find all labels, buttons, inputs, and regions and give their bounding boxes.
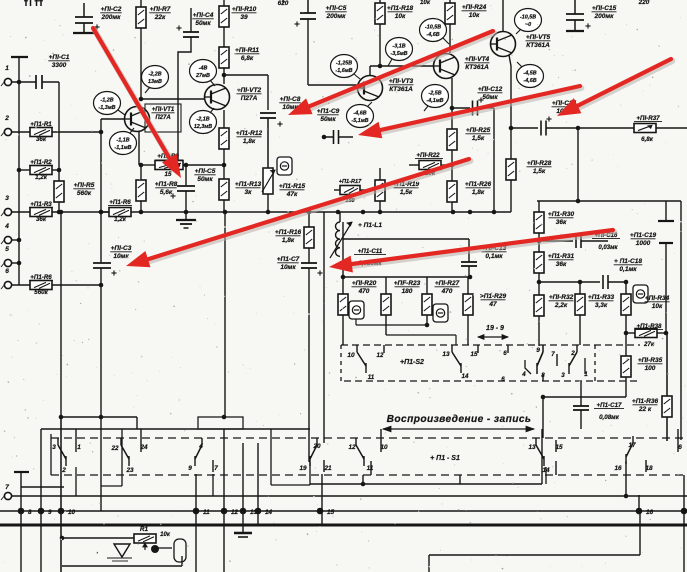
wire VT5 emitter down to C14 row xyxy=(509,55,511,128)
svg-text:50мк: 50мк xyxy=(320,116,336,123)
resistor R12 (П1-R12 1,8к) xyxy=(219,128,229,149)
svg-text:24: 24 xyxy=(139,444,148,451)
svg-text:12,3мВ: 12,3мВ xyxy=(194,124,212,130)
resistor R17 (П1-R17 150) horizontal xyxy=(340,186,360,195)
svg-text:1,8к: 1,8к xyxy=(243,138,256,145)
svg-text:9: 9 xyxy=(536,347,540,354)
capacitor C6 (П1-C6 200мк) electrolytic xyxy=(307,0,309,13)
svg-text:15: 15 xyxy=(165,171,172,178)
connector 6 xyxy=(4,281,11,288)
resistor R36 (П1-R36 22к) xyxy=(666,333,668,396)
svg-text:36к: 36к xyxy=(556,219,567,226)
svg-text:-1,25В: -1,25В xyxy=(336,61,352,67)
long vertical x61 xyxy=(60,212,62,417)
svg-text:36к: 36к xyxy=(36,136,47,143)
voltage callout -2,1В xyxy=(190,111,217,134)
dashed S1 row top xyxy=(51,437,687,439)
svg-text:+ПI-R27: +ПI-R27 xyxy=(435,280,460,287)
svg-text:+ПI-C5: +ПI-C5 xyxy=(195,168,216,175)
oscillator box outline xyxy=(62,537,134,539)
potentiometer R1 (R1 10к) xyxy=(134,534,156,543)
wire R10-R11 xyxy=(223,27,225,47)
vertical x101 bottom xyxy=(100,417,102,511)
svg-text:+П1-R6: +П1-R6 xyxy=(109,199,131,206)
svg-text:6: 6 xyxy=(501,376,505,383)
red arrow 4 xyxy=(382,88,582,132)
svg-text:13: 13 xyxy=(442,351,450,358)
resistor R28 (П1-R28 1,5к) xyxy=(510,128,512,159)
S2 contact 2-3 xyxy=(576,345,578,352)
svg-text:-2,1В: -2,1В xyxy=(196,117,209,123)
svg-text:+ПI-R25: +ПI-R25 xyxy=(466,127,491,134)
long vertical x324 xyxy=(323,212,325,443)
S1 contact 1 xyxy=(75,429,77,452)
verticals below S1 to buses xyxy=(195,474,197,572)
svg-text:+ П1-L1: + П1-L1 xyxy=(358,222,382,229)
svg-text:+П1-R18: +П1-R18 xyxy=(387,5,414,12)
svg-text:+П1-C7: +П1-C7 xyxy=(277,256,300,263)
resistor R31 (П1-R31 36к) xyxy=(534,252,544,273)
connector 2 xyxy=(4,128,11,135)
S1 contact 24 xyxy=(140,429,142,452)
S2 contact 6 upper xyxy=(507,345,509,353)
resistor R34 (П1-R34 10к) xyxy=(625,282,627,294)
ground branch left xyxy=(14,471,29,473)
ground below C5 xyxy=(176,219,196,221)
S1 contact 10 xyxy=(380,429,382,452)
wire R25-R26 xyxy=(451,150,453,181)
wire R30-R31 node xyxy=(538,233,540,252)
svg-text:+П1-R2: +П1-R2 xyxy=(30,159,52,166)
svg-text:6: 6 xyxy=(5,268,9,275)
svg-text:200мк: 200мк xyxy=(101,14,122,21)
capacitor C9 coupling xyxy=(333,130,335,144)
svg-text:180: 180 xyxy=(402,288,413,295)
svg-text:19 - 9: 19 - 9 xyxy=(486,325,504,332)
transistor VT2 (П1-VT2 П27А) xyxy=(205,85,230,110)
svg-text:+ПI-C12: +ПI-C12 xyxy=(478,86,503,93)
wire R11 to VT2 collector node xyxy=(223,68,225,84)
record head symbol near R15 xyxy=(277,157,292,175)
ground mid bottom xyxy=(234,532,252,534)
svg-text:+ПI-C3: +ПI-C3 xyxy=(111,245,132,252)
capacitor C12 (П1-C12 50мк) xyxy=(452,107,470,109)
red arrow 2 xyxy=(311,33,495,108)
S2 contact 9-8 xyxy=(542,345,544,352)
red arrow 6 xyxy=(353,232,614,266)
svg-text:10: 10 xyxy=(68,509,76,516)
svg-text:1,5к: 1,5к xyxy=(400,189,413,196)
svg-text:20: 20 xyxy=(312,443,321,450)
connector 3 xyxy=(4,208,11,215)
S2 contact 1 xyxy=(584,358,586,374)
S1 contact 18 xyxy=(645,460,647,472)
svg-text:+ПI-R11: +ПI-R11 xyxy=(235,47,259,54)
resistor R18 (П1-R18 10к) xyxy=(379,0,381,3)
capacitor C17 (П1-C17 0,08мк) xyxy=(580,381,582,406)
svg-text:-1,3мВ: -1,3мВ xyxy=(98,105,115,111)
resistor R35 (П1-R35 100) xyxy=(625,333,627,356)
svg-text:КТ361А: КТ361А xyxy=(389,86,413,93)
svg-text:16: 16 xyxy=(614,465,622,472)
jog wire y335 xyxy=(386,334,456,336)
svg-text:15: 15 xyxy=(327,509,335,516)
svg-text:+П1-R36: +П1-R36 xyxy=(632,398,659,405)
svg-text:2: 2 xyxy=(4,115,9,122)
resistor R8 (П1-R8 5,6к) xyxy=(140,165,142,180)
svg-text:+ПI-C8: +ПI-C8 xyxy=(280,96,301,103)
svg-text:100: 100 xyxy=(645,365,656,372)
head symbol B xyxy=(433,304,448,322)
resistor R22 (П1-R22 10к) horizontal xyxy=(419,161,441,170)
svg-text:+ПI-VT1: +ПI-VT1 xyxy=(152,107,175,113)
svg-text:П27А: П27А xyxy=(155,115,170,121)
resistor R30 (П1-R30 36к) xyxy=(538,201,540,212)
S1 contact 3-2 xyxy=(57,438,59,445)
svg-text:-4,6В: -4,6В xyxy=(426,32,439,38)
svg-text:-4,5В: -4,5В xyxy=(523,71,536,77)
svg-text:560к: 560к xyxy=(34,289,48,296)
svg-text:13: 13 xyxy=(528,444,536,451)
voltage callout -4,6В xyxy=(347,105,374,128)
svg-text:-1,1В: -1,1В xyxy=(116,138,129,144)
svg-text:+ПI-R37: +ПI-R37 xyxy=(636,115,660,122)
capacitor C16 (П1-C16 0,03мк) xyxy=(539,240,573,242)
wire VT1 collector to node xyxy=(141,98,205,100)
resistor R16 (П1-R16 1,8к) xyxy=(308,212,310,227)
resistor row wire y277 xyxy=(343,276,470,278)
svg-text:+ПI-R22: +ПI-R22 xyxy=(416,152,440,159)
svg-text:-3,1В: -3,1В xyxy=(392,44,405,50)
svg-text:+ПI-R34: +ПI-R34 xyxy=(645,295,670,302)
svg-text:+П1-R38: +П1-R38 xyxy=(637,323,662,330)
S1 contact 6 right xyxy=(677,429,679,452)
resistor R38 (П1-R38 27к) horizontal xyxy=(626,332,635,334)
transistor VT1 (П1-VT1 П27А) xyxy=(125,107,150,132)
svg-text:19: 19 xyxy=(299,465,307,472)
resistor R25 (П1-R25 1,5к) xyxy=(451,108,453,129)
svg-text:200мк: 200мк xyxy=(326,13,347,20)
svg-text:1000: 1000 xyxy=(636,240,651,247)
wire R13 to bus xyxy=(223,200,225,212)
svg-text:22: 22 xyxy=(110,445,119,452)
svg-text:+ПI-R5: +ПI-R5 xyxy=(74,182,95,189)
red arrow 5 xyxy=(150,161,471,261)
svg-text:2: 2 xyxy=(570,350,575,357)
svg-text:3: 3 xyxy=(5,195,9,202)
svg-text:0,03мк: 0,03мк xyxy=(598,245,618,251)
scan noise speckles xyxy=(223,87,224,88)
resistor R29 (П1-R29 47) xyxy=(467,277,469,294)
svg-text:+ПI-VT3: +ПI-VT3 xyxy=(389,78,414,85)
svg-text:220: 220 xyxy=(638,0,650,6)
svg-text:+ П1-C18: + П1-C18 xyxy=(614,258,642,265)
bus wire y511 xyxy=(0,510,687,512)
level indicator triangle xyxy=(114,544,130,557)
svg-text:1,8к: 1,8к xyxy=(282,237,295,244)
svg-text:+ П1 - S1: + П1 - S1 xyxy=(430,455,460,462)
svg-text:Воспроизведение - запись: Воспроизведение - запись xyxy=(387,414,532,425)
svg-text:0,1мк: 0,1мк xyxy=(485,253,503,260)
svg-text:5: 5 xyxy=(5,246,9,253)
voltage callout -4,5В xyxy=(517,65,544,88)
svg-text:12: 12 xyxy=(348,444,356,451)
vertical rail x59 xyxy=(58,82,60,181)
S2 contact 12 xyxy=(383,345,385,353)
resistor R13 (П1-R13 3к) xyxy=(219,179,229,200)
svg-text:27мВ: 27мВ xyxy=(195,73,210,79)
svg-text:11: 11 xyxy=(368,374,375,381)
svg-text:5,6к: 5,6к xyxy=(160,189,173,196)
svg-text:10к: 10к xyxy=(420,0,431,6)
svg-text:+ПI-R24: +ПI-R24 xyxy=(462,4,487,11)
svg-text:47к: 47к xyxy=(286,191,298,198)
svg-text:36к: 36к xyxy=(556,261,567,268)
svg-text:10к: 10к xyxy=(469,12,480,19)
svg-text:10мк: 10мк xyxy=(113,253,129,260)
small junction box y417-429 xyxy=(198,417,243,429)
solid wire y484 xyxy=(310,483,542,485)
connector 4 xyxy=(4,236,11,243)
svg-text:0,1мк: 0,1мк xyxy=(619,266,637,273)
right bottom verticals xyxy=(638,495,640,511)
wire VT1 emitter down xyxy=(138,131,140,165)
svg-text:470: 470 xyxy=(441,288,453,295)
svg-text:-10,5В: -10,5В xyxy=(520,15,536,21)
svg-text:13мВ: 13мВ xyxy=(148,79,162,85)
voltage callout -2,5В xyxy=(422,85,449,108)
ground bar top-left input xyxy=(11,56,28,58)
svg-text:12: 12 xyxy=(231,509,239,516)
wire row y128 VT5 to right edge xyxy=(511,127,538,129)
svg-text:+ПI-R20: +ПI-R20 xyxy=(352,280,377,287)
main mid bus y212 xyxy=(52,211,511,213)
resistor R1 (П1-R1 36к) horizontal xyxy=(12,131,30,133)
svg-text:+ПI-VT4: +ПI-VT4 xyxy=(465,56,490,63)
svg-text:1,2к: 1,2к xyxy=(114,216,127,223)
wire node to C8 xyxy=(224,74,268,76)
svg-text:+П1-R13: +П1-R13 xyxy=(235,181,262,188)
resistor R32 (П1-R32 2,2к) xyxy=(534,295,544,316)
underline with arrows xyxy=(383,428,534,430)
svg-text:17: 17 xyxy=(628,442,636,449)
svg-text:18: 18 xyxy=(645,465,653,472)
wire VT2 emitter down xyxy=(223,110,225,128)
connector 7 xyxy=(4,492,11,499)
wire from contact 11 down xyxy=(370,461,372,475)
svg-text:>П1-R29: >П1-R29 xyxy=(480,293,507,300)
svg-text:КТ361А: КТ361А xyxy=(526,42,550,49)
svg-text:22к: 22к xyxy=(154,14,166,21)
voltage callout -4В xyxy=(190,60,217,83)
capacitor C14 (П1-C14 10мк) xyxy=(540,121,542,136)
svg-text:4: 4 xyxy=(521,371,526,378)
svg-text:+П1-R30: +П1-R30 xyxy=(548,211,575,218)
vertical rail x101 with C3 xyxy=(100,119,102,263)
svg-text:14: 14 xyxy=(462,373,469,380)
wire VT3 to VT4 base xyxy=(370,65,433,67)
svg-text:-4В: -4В xyxy=(199,66,208,72)
S1 contact 17-16 xyxy=(632,436,634,443)
wire VT1 base left xyxy=(101,118,125,120)
wire y397 xyxy=(543,396,626,398)
voltage callout -2,2В xyxy=(142,66,169,89)
vertical from C14 node down xyxy=(577,128,579,201)
svg-text:470: 470 xyxy=(358,288,370,295)
dot node in box xyxy=(151,545,159,553)
svg-text:9: 9 xyxy=(188,465,192,472)
trimmer resistor R37 (П1-R37 6,8к) horizontal xyxy=(634,124,656,133)
voltage callout -1,2В xyxy=(94,92,121,115)
svg-text:10к: 10к xyxy=(395,13,406,20)
svg-text:-1,1мВ: -1,1мВ xyxy=(114,145,131,151)
svg-text:12: 12 xyxy=(377,352,384,359)
svg-text:8: 8 xyxy=(28,509,32,516)
resistor R9 (П1-R9 15) horizontal xyxy=(139,164,155,166)
svg-text:-10,5В: -10,5В xyxy=(425,25,441,31)
svg-text:6,8к: 6,8к xyxy=(641,136,654,143)
svg-text:11: 11 xyxy=(367,465,374,472)
svg-text:0,08мк: 0,08мк xyxy=(599,414,620,421)
S1 contact 15 xyxy=(555,440,557,452)
svg-text:+П1-C9: +П1-C9 xyxy=(317,108,340,115)
calibration tick marks top-left xyxy=(25,0,27,6)
resistor R33 (П1-R33 3,3к) xyxy=(579,282,581,294)
svg-text:4: 4 xyxy=(198,443,203,450)
dashed S2 box xyxy=(341,344,640,346)
svg-text:10: 10 xyxy=(347,352,355,359)
resistor R6 (П1-R6 560к) horizontal xyxy=(12,284,30,286)
numbered bus dots xyxy=(18,508,25,515)
transistor VT3 (П1-VT3 КТ361А) xyxy=(358,76,383,101)
svg-text:П27А: П27А xyxy=(241,95,258,102)
capacitor C15 (П1-C15 200мк) electrolytic xyxy=(574,0,576,14)
S1 contact 12-11 xyxy=(355,438,357,445)
vertical x76 xyxy=(75,467,77,496)
svg-text:6: 6 xyxy=(503,350,507,357)
svg-text:50мк: 50мк xyxy=(482,94,498,101)
svg-text:47: 47 xyxy=(488,301,497,308)
capacitor C18 (П1-C18 0,1мк) row xyxy=(539,281,600,283)
trimmer resistor R15 (П1-R15 47к) xyxy=(263,168,273,194)
svg-text:+П1-S2: +П1-S2 xyxy=(400,359,424,366)
svg-text:15: 15 xyxy=(471,351,478,358)
svg-text:7: 7 xyxy=(5,484,9,491)
resistor R20 (П1-R20 470) xyxy=(342,277,344,294)
svg-text:50мк: 50мк xyxy=(197,176,213,183)
wire L1 bottom to resistor row xyxy=(342,256,344,277)
S1 contact 22-23 xyxy=(120,438,122,445)
capacitor C19 (П1-C19 1000) xyxy=(665,201,667,221)
svg-text:+П1-R33: +П1-R33 xyxy=(588,294,615,301)
svg-text:15: 15 xyxy=(555,444,563,451)
right edge long vertical xyxy=(680,201,682,440)
svg-text:21: 21 xyxy=(323,465,332,472)
S1 contact 4-9-7 xyxy=(201,438,203,445)
capacitor C5 (П1-C5 50мк) electrolytic xyxy=(185,165,187,186)
svg-text:+ПI-R10: +ПI-R10 xyxy=(232,6,257,13)
box top wire y239 xyxy=(343,238,469,240)
svg-text:50мк: 50мк xyxy=(195,20,211,27)
motor cylinder xyxy=(174,539,186,562)
svg-text:-2,2В: -2,2В xyxy=(148,72,161,78)
connector 1 xyxy=(4,78,11,85)
resistor R3 (П1-R3 36к) horizontal xyxy=(12,211,30,213)
svg-text:36к: 36к xyxy=(36,216,47,223)
transistor VT4 (П1-VT4 КТ361А) xyxy=(434,54,459,79)
svg-text:6: 6 xyxy=(678,444,682,451)
svg-text:3к: 3к xyxy=(245,189,253,196)
svg-text:+ПF-R23: +ПF-R23 xyxy=(394,280,421,287)
svg-text:-3,5мВ: -3,5мВ xyxy=(390,51,407,57)
svg-text:~0: ~0 xyxy=(525,22,531,28)
svg-text:4: 4 xyxy=(4,223,9,230)
svg-text:+П1-C17: +П1-C17 xyxy=(597,402,622,409)
svg-text:39: 39 xyxy=(240,14,248,21)
svg-text:10к: 10к xyxy=(652,303,663,310)
svg-text:-5,1мВ: -5,1мВ xyxy=(351,118,368,124)
svg-text:3: 3 xyxy=(52,444,56,451)
S2 contact 15 xyxy=(477,345,479,353)
svg-text:+П1-R31: +П1-R31 xyxy=(548,253,575,260)
svg-text:6,8к: 6,8к xyxy=(241,55,254,62)
vertical x41 bottom xyxy=(40,429,42,572)
svg-text:+ПI-C4: +ПI-C4 xyxy=(193,12,214,19)
resistor R24 (П1-R24 10к) xyxy=(449,0,451,3)
voltage callout -1,25В xyxy=(331,55,358,78)
bus wire y496 xyxy=(12,495,687,497)
svg-text:10мк: 10мк xyxy=(280,264,296,271)
S1 contact 20-19-21 xyxy=(316,438,318,445)
wire R12 to mid node xyxy=(223,149,225,179)
svg-text:200мк: 200мк xyxy=(594,13,615,20)
svg-text:+ПI-C5: +ПI-C5 xyxy=(326,5,347,12)
resistor R5 (П1-R5 560к) xyxy=(54,181,64,202)
resistor R19 (П1-R19 1,5к) xyxy=(379,168,381,180)
svg-text:7: 7 xyxy=(214,465,218,472)
svg-text:27к: 27к xyxy=(643,341,655,348)
svg-text:3300: 3300 xyxy=(52,62,67,69)
svg-text:-1,2В: -1,2В xyxy=(100,98,113,104)
wire VT4 emitter down xyxy=(451,78,453,108)
resistor R26 (П1-R26 1,8к) xyxy=(447,181,457,202)
resistor R23 (П1-R23 180) xyxy=(385,277,387,294)
resistor R11 (П1-R11 6,8к) xyxy=(219,47,229,68)
voltage callout -10,5В a xyxy=(420,19,447,42)
capacitor C8 (П1-C8 10мк) electrolytic xyxy=(260,112,276,114)
svg-text:+ПI-C15: +ПI-C15 xyxy=(592,5,617,12)
svg-text:-4,6В: -4,6В xyxy=(523,78,536,84)
svg-text:11: 11 xyxy=(203,509,210,516)
S2 contact 13-14 xyxy=(451,345,453,352)
svg-text:560к: 560к xyxy=(77,190,92,197)
red arrow 3 xyxy=(579,61,672,108)
svg-text:7: 7 xyxy=(551,351,555,358)
S1 right stubs xyxy=(542,397,544,438)
left rail vertical xyxy=(18,82,20,285)
resistor R6b (П1-R6 1,2к) horizontal mid xyxy=(101,211,109,213)
head symbol A xyxy=(349,301,364,319)
left boxes verticals xyxy=(50,434,52,475)
svg-text:10к: 10к xyxy=(160,532,171,538)
resistor R2 (П1-R2 1,2к) horizontal xyxy=(19,169,30,171)
svg-text:16: 16 xyxy=(646,509,654,516)
svg-text:+ПI-R32: +ПI-R32 xyxy=(549,294,574,301)
svg-text:+П1-R6: +П1-R6 xyxy=(30,274,52,281)
voltage callout -10,5В b xyxy=(515,9,542,32)
resistor R7 (П1-R7 22к) xyxy=(140,0,142,7)
svg-text:22 к: 22 к xyxy=(638,406,652,413)
